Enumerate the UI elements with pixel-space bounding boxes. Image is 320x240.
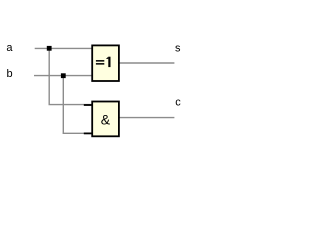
wire b horizontal (34, 75, 92, 77)
wire a branch vertical (48, 48, 50, 104)
wire c output (119, 117, 174, 119)
svg-text:s: s (175, 42, 181, 54)
wire s output (119, 62, 174, 64)
svg-text:a: a (6, 42, 13, 54)
wire b branch vertical (62, 76, 64, 134)
and gate U2 input pin 2 stub (84, 132, 92, 134)
wire b branch horizontal to AND (63, 132, 93, 134)
junction on wire b (61, 73, 66, 78)
svg-text:&: & (101, 111, 111, 127)
and gate U2 input pin 1 stub (84, 104, 92, 106)
xor gate U1 body (92, 45, 119, 81)
svg-text:b: b (7, 68, 13, 80)
svg-text:c: c (175, 97, 181, 109)
junction on wire a (47, 46, 52, 51)
wire a horizontal (35, 47, 92, 49)
wire a branch horizontal to AND (49, 104, 93, 106)
xor gate U1 label =1 (96, 57, 111, 67)
and gate U2 body (92, 102, 119, 137)
